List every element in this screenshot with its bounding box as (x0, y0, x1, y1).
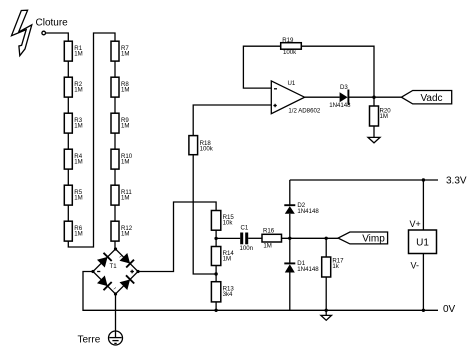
resistor R6 (64, 221, 82, 241)
bridge diode L-B (97, 276, 112, 291)
svg-text:0V: 0V (443, 304, 456, 315)
svg-text:C1: C1 (241, 225, 249, 232)
svg-text:1M: 1M (74, 122, 82, 129)
resistor R13 (211, 282, 234, 302)
bridge minus mark (97, 271, 100, 273)
svg-text:1N4148: 1N4148 (329, 102, 351, 109)
capacitor C1 (240, 225, 254, 252)
wire 3.3V to D2 (289, 180, 291, 205)
wire R7-R8 (114, 61, 116, 77)
wire node to R20 (373, 97, 375, 106)
svg-text:1M: 1M (74, 86, 82, 93)
power rail 3.3V (290, 179, 438, 181)
wire D2 to Vimp node (289, 214, 291, 239)
resistor R4 (64, 149, 82, 169)
svg-text:1/2 AD8602: 1/2 AD8602 (288, 107, 320, 114)
svg-text:3k4: 3k4 (223, 291, 233, 298)
junction R14/R13/R18 (214, 272, 217, 275)
svg-text:D3: D3 (340, 84, 348, 91)
wire R8-R9 (114, 97, 116, 113)
bridge diode B-R (120, 275, 135, 290)
junction R16/D1/D2 (288, 237, 291, 240)
wire Vimp node to D1 (289, 238, 291, 263)
svg-text:Cloture: Cloture (36, 18, 69, 29)
diode D3 (329, 84, 351, 109)
lightning bolt (fence spark symbol) (12, 10, 32, 56)
resistor R11 (111, 185, 132, 205)
svg-text:1M: 1M (121, 50, 129, 57)
svg-text:1N4148: 1N4148 (297, 208, 319, 215)
wire R12 to bridge (114, 241, 116, 249)
wire R20 to ground (373, 126, 375, 137)
svg-text:1M: 1M (74, 158, 82, 165)
wire D3 to Vadc node (348, 96, 401, 98)
flag Vadc (401, 91, 451, 104)
svg-text:1M: 1M (121, 194, 129, 201)
svg-text:10k: 10k (223, 220, 234, 227)
diode D1 (284, 260, 319, 273)
junction bridge left (91, 270, 94, 273)
wire bridge bottom to earth (115, 294, 117, 338)
wire R13 to 0V rail (215, 302, 217, 310)
wire 3.3V to U1 V+ (422, 180, 424, 230)
resistor R14 (211, 247, 234, 266)
op-amp U1 1/2 AD8602 (271, 80, 321, 115)
svg-text:R16: R16 (263, 227, 275, 234)
wire R9-R10 (114, 133, 116, 149)
resistor R5 (64, 185, 82, 205)
svg-text:1M: 1M (74, 230, 82, 237)
resistor R15 (211, 211, 234, 231)
svg-text:100k: 100k (283, 49, 297, 56)
resistor R19 (281, 37, 302, 56)
wire C1 to R16 (248, 237, 262, 239)
wire Vimp node to R17 (325, 238, 327, 257)
wire R19 to output node (301, 46, 374, 97)
junction bridge top (114, 247, 117, 250)
bridge diode L-T (97, 253, 112, 268)
ground symbol at 0V rail (321, 310, 332, 320)
svg-text:1M: 1M (74, 50, 82, 57)
wire R10-R11 (114, 169, 116, 185)
earth electrode symbol Terre (109, 331, 123, 345)
wire bridge minus to 0V rail (83, 272, 438, 311)
bridge diode T-R (120, 253, 135, 268)
svg-text:R19: R19 (282, 37, 294, 44)
svg-text:T1: T1 (110, 263, 118, 270)
resistor R20 (370, 106, 392, 126)
svg-text:Terre: Terre (78, 335, 101, 346)
bridge rectifier T1 body (93, 249, 138, 294)
wire terminal to R1 (46, 33, 69, 41)
svg-text:1k: 1k (332, 263, 339, 270)
junction R15/R14/C1 (214, 237, 217, 240)
svg-text:1M: 1M (74, 194, 82, 201)
wire R15-R14 (215, 230, 217, 246)
diode D2 (284, 202, 319, 215)
resistor R16 (262, 227, 282, 249)
svg-text:1M: 1M (223, 256, 231, 263)
svg-text:U1: U1 (416, 238, 429, 249)
resistor R17 (322, 257, 344, 277)
svg-text:Vadc: Vadc (420, 93, 442, 104)
svg-text:1M: 1M (380, 113, 388, 120)
wire R5-R6 (67, 205, 69, 221)
junction U1/0V (422, 309, 425, 312)
resistor R12 (111, 221, 133, 241)
junction R17/0V (325, 309, 328, 312)
junction bridge bottom (114, 292, 117, 295)
resistor R7 (111, 41, 129, 61)
wire R4-R5 (67, 169, 69, 185)
junction bridge right (136, 270, 139, 273)
svg-text:1M: 1M (121, 230, 129, 237)
junction D3/R19/R20/Vadc (372, 96, 375, 99)
wire R6 bottom loop up to R7 top (68, 33, 115, 247)
resistor R2 (64, 77, 82, 97)
svg-text:1M: 1M (263, 243, 271, 250)
flag Vimp (338, 232, 388, 245)
wire op-amp output to D3 (305, 96, 340, 98)
resistor R8 (111, 77, 129, 97)
svg-text:3.3V: 3.3V (446, 176, 467, 187)
wire U1 V- to 0V rail (422, 254, 424, 311)
wire R2-R3 (67, 97, 69, 113)
wire R16 to Vimp flag (282, 237, 339, 239)
wire R3-R4 (67, 133, 69, 149)
wire D1 to 0V rail (289, 273, 291, 311)
wire R14-R13 (215, 266, 217, 282)
IC U1 microcontroller box (409, 230, 437, 254)
resistor R9 (111, 113, 129, 133)
wire R14/R13 node to R18 (193, 155, 216, 274)
svg-text:V-: V- (411, 261, 420, 271)
svg-text:100k: 100k (200, 145, 214, 152)
wire R11-R12 (114, 205, 116, 221)
svg-text:1M: 1M (121, 158, 129, 165)
wire R18 to op-amp plus input (193, 105, 271, 136)
svg-text:V+: V+ (410, 219, 421, 229)
ground symbol below R20 (368, 137, 380, 143)
resistor R3 (64, 113, 82, 133)
resistor R1 (64, 41, 82, 61)
terminal Cloture (42, 31, 46, 35)
resistor R10 (111, 149, 133, 169)
junction R13/0V (214, 309, 217, 312)
wire node to C1 (216, 237, 240, 239)
junction Vimp/R17 (325, 237, 328, 240)
junction 3.3V/U1 (422, 178, 425, 181)
svg-text:1M: 1M (121, 122, 129, 129)
bridge plus mark (130, 270, 134, 274)
svg-text:U1: U1 (288, 80, 296, 87)
wire bridge plus to R15 (138, 202, 216, 272)
svg-text:1M: 1M (121, 86, 129, 93)
svg-text:Vimp: Vimp (362, 234, 385, 245)
resistor R18 (189, 136, 214, 155)
wire R17 to 0V rail (325, 277, 327, 310)
svg-text:100n: 100n (240, 245, 254, 252)
wire op-amp minus input feedback (243, 46, 280, 88)
svg-text:1N4148: 1N4148 (297, 266, 319, 273)
wire R1-R2 (67, 61, 69, 77)
